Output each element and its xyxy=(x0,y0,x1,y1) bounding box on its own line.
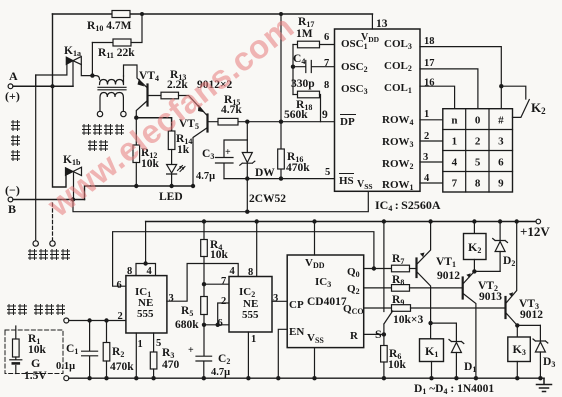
wire rail B (C3/DW bottom to HS pin5) xyxy=(224,178,335,180)
terminal phone left xyxy=(33,241,38,246)
node EN rail xyxy=(276,376,280,380)
node VT4 collector node xyxy=(134,116,138,120)
terminal alarm line upper xyxy=(64,318,69,323)
svg-text:1: 1 xyxy=(424,109,429,120)
battery G xyxy=(15,357,17,359)
transistor VT2 xyxy=(462,278,464,299)
svg-text:ROW1: ROW1 xyxy=(382,179,414,192)
svg-text:10k: 10k xyxy=(210,249,229,261)
zener DW xyxy=(242,140,252,163)
resistor R8 xyxy=(392,285,410,292)
svg-text:7: 7 xyxy=(221,276,226,287)
wire top bus xyxy=(53,13,373,15)
wire ROW1 xyxy=(420,182,443,184)
node R6 rail xyxy=(382,376,386,380)
svg-text:10k: 10k xyxy=(388,359,407,371)
svg-text:1.5V: 1.5V xyxy=(24,370,47,382)
label jie lu yin ji xyxy=(82,124,91,135)
switch S chain xyxy=(384,222,393,335)
IC1 box xyxy=(126,276,167,333)
wire left phone vertical xyxy=(35,75,37,240)
wire main right bus xyxy=(280,14,282,179)
svg-text:17: 17 xyxy=(424,58,435,69)
svg-text:2: 2 xyxy=(424,131,429,142)
label fu jian bao jing xian xyxy=(7,304,16,315)
node pin62 tap xyxy=(202,323,206,327)
node R3 rail xyxy=(151,376,155,380)
svg-text:(+): (+) xyxy=(5,89,20,103)
transformer T primary xyxy=(92,76,123,85)
terminal B xyxy=(8,197,13,202)
diode D1 xyxy=(449,323,464,343)
node VT3 collector K3 xyxy=(515,323,519,327)
node IC2 pin1 rail xyxy=(246,376,250,380)
wire pin13 xyxy=(371,14,373,29)
svg-text:IC4 : S2560A: IC4 : S2560A xyxy=(375,198,441,213)
node VT5 collector-rail xyxy=(191,184,195,188)
node R16-railB xyxy=(279,176,283,180)
node D3 rail xyxy=(538,376,542,380)
terminal recorder-out left xyxy=(97,111,102,116)
resistor R6 xyxy=(383,334,385,345)
ground symbol xyxy=(537,378,552,391)
node VT2 collector rail xyxy=(474,376,478,380)
wire R13 to VT5 xyxy=(179,96,207,116)
transistor VT3 xyxy=(504,297,506,318)
svg-text:6: 6 xyxy=(117,280,122,291)
node top bus / right vertical xyxy=(279,12,283,16)
node R12-rail xyxy=(134,184,138,188)
resistor R14 xyxy=(168,131,175,150)
svg-text:10k: 10k xyxy=(28,344,47,356)
resistor R5 xyxy=(201,297,208,315)
node K1a-R11-transformer junction xyxy=(90,73,94,77)
resistor R7 xyxy=(392,265,410,272)
svg-text:1k: 1k xyxy=(177,144,190,156)
svg-text:R: R xyxy=(350,330,359,342)
node K1 D1 VT1 xyxy=(428,321,432,325)
wire Q0 line xyxy=(364,268,392,270)
svg-text:3: 3 xyxy=(273,293,278,304)
node rail IC2-8 xyxy=(255,219,259,223)
resistor R11 xyxy=(92,42,113,44)
node IC1 84 tie xyxy=(143,261,147,265)
svg-text:4: 4 xyxy=(230,266,236,277)
resistor R12 xyxy=(135,118,137,145)
node rail VT1 xyxy=(428,219,432,223)
wire DW down to VSS rail xyxy=(246,179,248,212)
label jie dian hua ji xyxy=(28,249,37,260)
wire IC3 VSS lead xyxy=(314,348,316,379)
node osc rail C4 xyxy=(291,65,295,69)
wire IC1 pin8 pin4 tie xyxy=(136,264,156,276)
svg-text:7: 7 xyxy=(324,58,329,69)
node B junction xyxy=(71,197,75,201)
node K3 rail xyxy=(515,376,519,380)
svg-text:D1 ~D4 : 1N4001: D1 ~D4 : 1N4001 xyxy=(414,383,494,396)
node A-line tap xyxy=(51,84,55,88)
wire bottom rail xyxy=(69,377,544,379)
node top bus / R10-R11 junction xyxy=(140,12,144,16)
svg-text:18: 18 xyxy=(424,36,435,47)
resistor R9 xyxy=(392,305,411,312)
svg-text:1: 1 xyxy=(251,334,256,345)
svg-text:HS: HS xyxy=(339,175,354,187)
wire IC2 pin2 xyxy=(218,303,229,325)
svg-text:EN: EN xyxy=(289,326,304,338)
label jie xian qi vertical text xyxy=(11,120,20,131)
node R2 bottom xyxy=(104,376,108,380)
svg-text:CD4017: CD4017 xyxy=(307,296,347,308)
node rail D2 xyxy=(498,219,502,223)
switch K1b xyxy=(66,168,74,176)
svg-text:0.1μ: 0.1μ xyxy=(56,361,75,372)
wire COL3 xyxy=(420,47,501,109)
capacitor C4 xyxy=(293,61,335,73)
capacitor C2 xyxy=(196,356,212,378)
svg-text:2: 2 xyxy=(118,311,123,322)
svg-text:#: # xyxy=(498,115,504,127)
wire osc left rail xyxy=(292,45,294,95)
transistor VT5 xyxy=(198,105,205,113)
wire ground rail A xyxy=(85,186,194,200)
keypad box xyxy=(443,109,513,192)
svg-text:6: 6 xyxy=(498,157,504,169)
svg-text:6: 6 xyxy=(218,318,223,329)
svg-text:+: + xyxy=(188,345,194,356)
wire IC3 EN ground xyxy=(278,329,287,378)
wire QCO line xyxy=(364,307,392,309)
svg-text:S: S xyxy=(375,327,382,341)
svg-text:9012: 9012 xyxy=(437,270,460,282)
relay K3 xyxy=(516,325,518,337)
IC3 box xyxy=(287,255,364,348)
node DW-VSS xyxy=(245,210,249,214)
node pin7 tap xyxy=(202,282,206,286)
node D1 rail xyxy=(454,376,458,380)
svg-text:2: 2 xyxy=(221,296,226,307)
svg-text:ROW3: ROW3 xyxy=(382,136,414,149)
node C1 bottom xyxy=(87,376,91,380)
terminal +12V xyxy=(536,219,541,224)
capacitor C3 xyxy=(216,122,248,179)
node R pin S xyxy=(382,332,386,336)
svg-text:COL1: COL1 xyxy=(384,82,412,95)
node COL3-K2 tap xyxy=(499,84,503,88)
svg-text:9: 9 xyxy=(498,178,504,190)
svg-text:560k: 560k xyxy=(284,109,308,121)
svg-text:4.7μ: 4.7μ xyxy=(211,367,230,378)
wire A line xyxy=(13,85,73,87)
wire IC2 pin7 xyxy=(204,283,229,285)
svg-text:2: 2 xyxy=(475,136,481,148)
wire VT5-R15 to DP xyxy=(218,121,335,123)
node VT2 emitter K2 xyxy=(472,269,476,273)
svg-text:4: 4 xyxy=(424,173,430,184)
svg-text:8: 8 xyxy=(127,266,132,277)
diode LED xyxy=(167,165,177,174)
node rail K2 xyxy=(472,219,476,223)
resistor R1 xyxy=(15,326,17,339)
node rail R4 xyxy=(202,219,206,223)
wire rail3 pin6 to Q0 xyxy=(113,232,374,287)
svg-text:A: A xyxy=(9,69,18,83)
svg-text:COL2: COL2 xyxy=(384,60,412,73)
svg-text:5: 5 xyxy=(475,157,481,169)
svg-text:680k: 680k xyxy=(175,319,199,331)
svg-text:0: 0 xyxy=(475,115,481,127)
wire IC1 pin1 xyxy=(135,333,137,378)
svg-text:6: 6 xyxy=(324,32,329,43)
svg-text:ROW4: ROW4 xyxy=(382,114,414,127)
svg-text:470k: 470k xyxy=(110,361,134,373)
svg-text:4.7μ: 4.7μ xyxy=(196,171,215,182)
svg-text:3: 3 xyxy=(423,152,428,163)
svg-text:R10 4.7M: R10 4.7M xyxy=(87,20,132,33)
svg-text:330p: 330p xyxy=(291,78,315,90)
IC4 box xyxy=(335,29,421,191)
svg-text:7: 7 xyxy=(452,178,458,190)
wire ROW4 xyxy=(420,119,443,121)
svg-text:8: 8 xyxy=(248,267,253,278)
svg-text:1: 1 xyxy=(138,339,143,350)
resistor R3 xyxy=(153,333,155,352)
wire Q2 line xyxy=(364,287,392,289)
wire left vertical from top bus to phone terminal xyxy=(53,14,67,187)
wire IC2 pin8 supply xyxy=(256,222,258,277)
switch K1a xyxy=(36,65,67,87)
resistor R4 xyxy=(203,222,205,240)
node R2 top xyxy=(104,318,108,322)
node IC3 VSS rail xyxy=(312,376,316,380)
wire IC3 R pin xyxy=(364,333,384,335)
svg-text:4: 4 xyxy=(147,266,153,277)
svg-text:5: 5 xyxy=(156,338,161,349)
terminal phone right xyxy=(50,241,55,246)
terminal A xyxy=(8,84,13,89)
label shu chu xyxy=(88,140,97,151)
diode D3 xyxy=(533,325,548,343)
svg-text:G: G xyxy=(31,356,40,370)
svg-text:13: 13 xyxy=(376,18,388,30)
svg-text:2CW52: 2CW52 xyxy=(249,193,286,205)
wire COL1 xyxy=(420,86,455,109)
svg-text:4.7k: 4.7k xyxy=(221,104,242,116)
resistor R10 xyxy=(112,11,130,18)
node rail IC3-VDD xyxy=(312,219,316,223)
node R15 line / bus xyxy=(279,120,283,124)
svg-text:470k: 470k xyxy=(286,162,310,174)
accessory dashed box xyxy=(5,330,63,374)
resistor R13 xyxy=(161,92,179,99)
wire IC1 pin3 to IC2 pin4 xyxy=(167,264,238,302)
node rail3 Q0 xyxy=(372,266,376,270)
wire B line xyxy=(13,199,85,201)
transistor VT1 xyxy=(415,259,417,278)
svg-text:470: 470 xyxy=(162,359,180,371)
transformer T secondary xyxy=(100,93,123,112)
node pin1 rail xyxy=(134,376,138,380)
wire K3-D3 tie xyxy=(517,324,540,326)
resistor R17 xyxy=(293,44,298,46)
svg-text:LED: LED xyxy=(159,191,183,203)
node rail S xyxy=(382,219,386,223)
terminal alarm line lower xyxy=(64,376,69,381)
svg-text:16: 16 xyxy=(424,78,435,89)
capacitor C1 xyxy=(82,321,98,379)
wire ROW3 xyxy=(420,140,443,142)
node DW-railB xyxy=(245,176,249,180)
node LED-rail xyxy=(169,184,173,188)
svg-text:3: 3 xyxy=(169,293,174,304)
wire COL2 xyxy=(420,69,478,109)
wire K1-D1 tie xyxy=(431,322,457,324)
resistor R18 xyxy=(293,94,298,96)
svg-text:R11 22k: R11 22k xyxy=(98,47,135,60)
wire IC2 pin1 lead xyxy=(247,332,249,378)
svg-text:5: 5 xyxy=(325,167,330,178)
switch K2 xyxy=(501,86,529,117)
svg-text:555: 555 xyxy=(242,309,259,321)
svg-text:+: + xyxy=(225,147,231,158)
svg-text:3: 3 xyxy=(498,136,504,148)
wire IC2 pin3 to IC3 CP xyxy=(272,300,287,302)
diode D2 xyxy=(493,222,508,243)
svg-text:10k×3: 10k×3 xyxy=(393,314,423,326)
node K1 rail xyxy=(429,376,433,380)
terminal recorder-out right xyxy=(121,111,126,116)
label keypad row1 xyxy=(451,115,504,190)
svg-text:9013: 9013 xyxy=(479,291,502,303)
IC2 box xyxy=(229,277,272,333)
svg-text:(−): (−) xyxy=(5,183,20,197)
node C2 rail xyxy=(202,376,206,380)
transistor VT4 xyxy=(124,65,148,88)
wire IC3 VDD riser xyxy=(314,222,316,256)
resistor R2 xyxy=(106,321,108,343)
wire IC2 pin6 xyxy=(204,324,229,326)
wire IC1 pin2 line xyxy=(69,320,126,322)
wire IC1 supply drop xyxy=(145,222,147,264)
wire VSS rail xyxy=(73,191,368,211)
svg-text:ROW2: ROW2 xyxy=(382,158,414,171)
transformer T core xyxy=(98,87,126,90)
node pin2-pin6 xyxy=(216,323,220,327)
svg-text:8: 8 xyxy=(324,80,329,91)
node C1 top xyxy=(87,318,91,322)
svg-text:555: 555 xyxy=(137,308,154,320)
wire ROW2 xyxy=(420,161,443,163)
svg-text:8: 8 xyxy=(475,178,481,190)
resistor R15 xyxy=(218,118,238,125)
wire VT4 collector to R14 xyxy=(136,118,171,131)
svg-text:9: 9 xyxy=(322,109,328,121)
wire dashed phone lead xyxy=(52,203,54,240)
relay K1 xyxy=(430,323,432,339)
svg-text:B: B xyxy=(8,202,16,216)
svg-text:4: 4 xyxy=(452,157,458,169)
wire +12V rail xyxy=(146,221,536,223)
node R15 line / DW tap xyxy=(245,120,249,124)
svg-text:COL3: COL3 xyxy=(384,38,412,51)
svg-text:DW: DW xyxy=(255,167,275,179)
svg-text:DP: DP xyxy=(340,116,355,128)
svg-text:+12V: +12V xyxy=(520,224,550,239)
node rail VT3 xyxy=(515,219,519,223)
svg-text:1: 1 xyxy=(452,136,458,148)
svg-text:CP: CP xyxy=(289,299,304,311)
svg-text:n: n xyxy=(451,115,457,127)
svg-text:9012: 9012 xyxy=(520,309,543,321)
relay K2 xyxy=(473,222,475,234)
resistor R16 xyxy=(278,149,285,169)
